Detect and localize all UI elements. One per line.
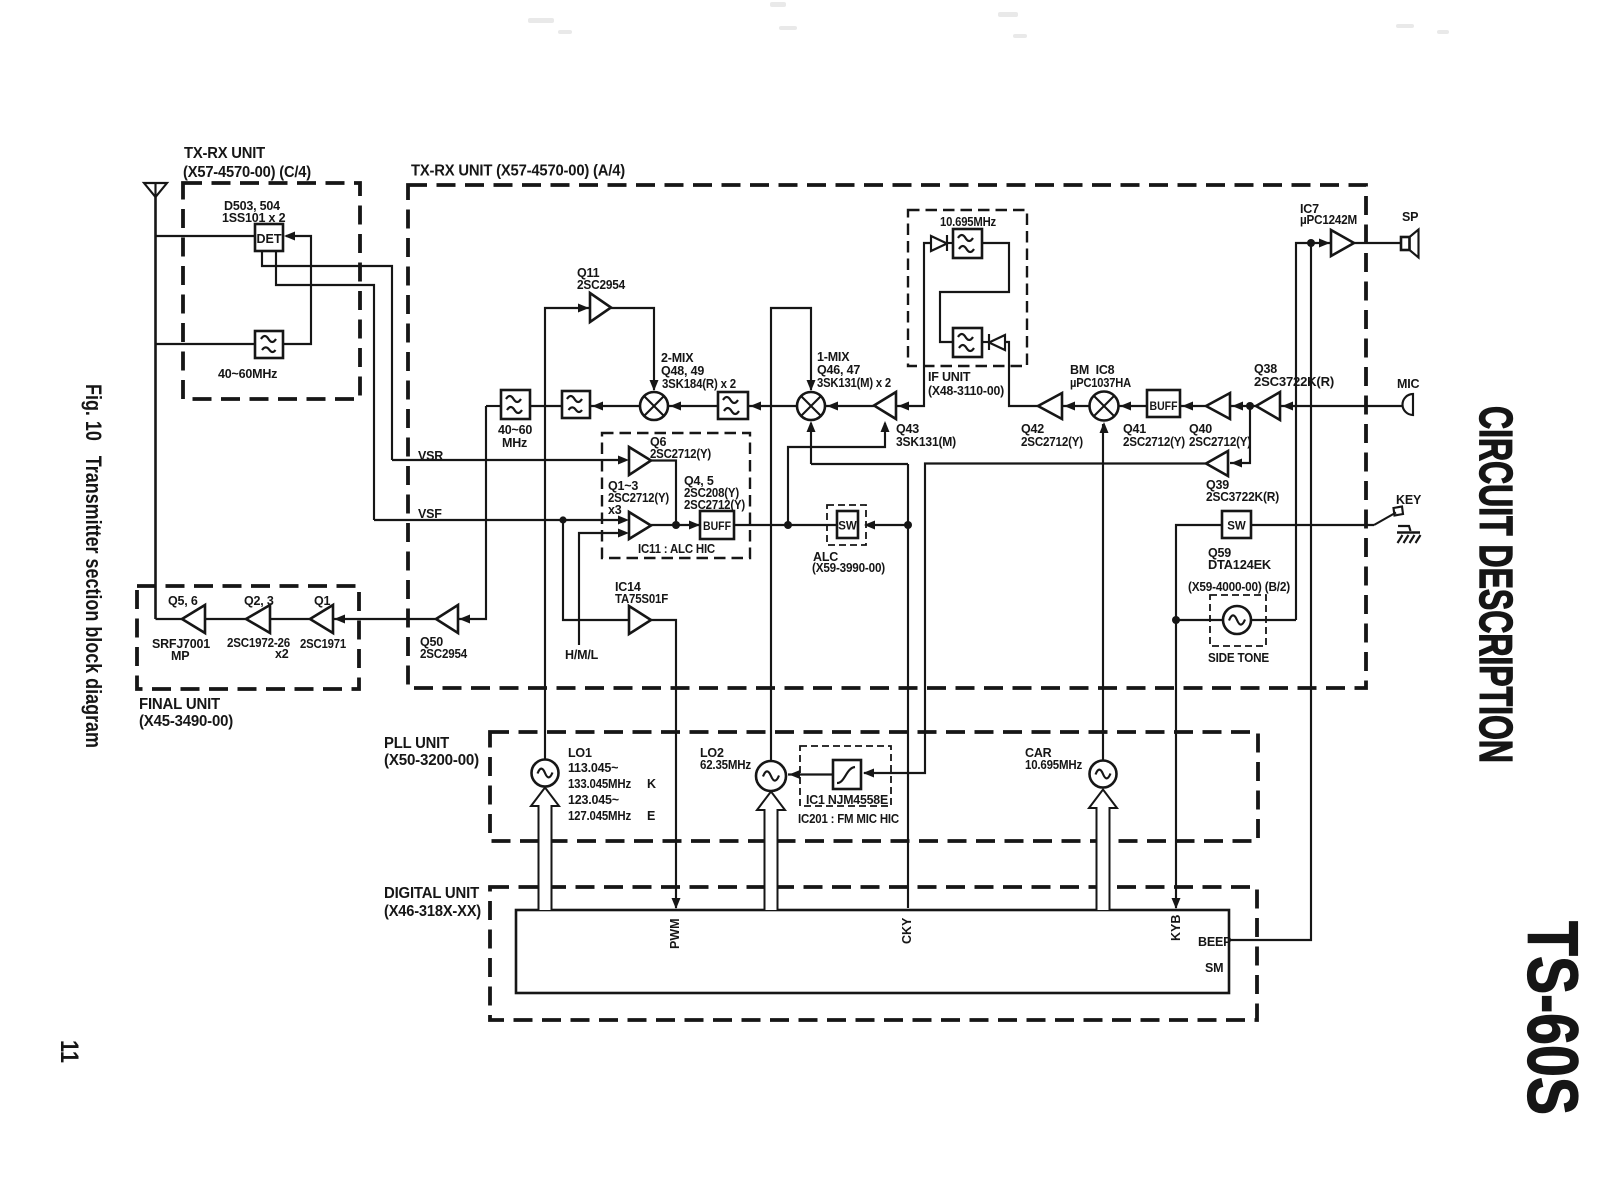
mixer BM IC8: [1090, 392, 1119, 421]
processor DIGITAL UNIT main box: [516, 910, 1229, 993]
node Q38 output junction: [1246, 402, 1254, 410]
svg-text:CIRCUIT DESCRIPTION: CIRCUIT DESCRIPTION: [1470, 406, 1522, 763]
svg-text:2SC2954: 2SC2954: [420, 647, 467, 661]
svg-text:SIDE TONE: SIDE TONE: [1208, 651, 1269, 665]
unit box FINAL UNIT (X45-3490-00) dashed: [137, 586, 359, 689]
svg-text:E: E: [647, 809, 655, 823]
svg-text:PWM: PWM: [668, 918, 682, 949]
label Q11 2SC2954: [577, 266, 625, 292]
unit box IF UNIT (X48-3110-00) dashed: [908, 210, 1027, 366]
bus arrow PLL to LO2: [757, 792, 785, 911]
wire diode bottom to Q42 output: [1005, 342, 1038, 406]
svg-text:1SS101 x 2: 1SS101 x 2: [222, 211, 286, 225]
svg-text:Q2, 3: Q2, 3: [244, 594, 274, 608]
svg-text:LO1: LO1: [568, 746, 592, 760]
filter IC1 NJM4558E box: [833, 760, 861, 789]
svg-text:123.045~: 123.045~: [568, 793, 619, 807]
unit box TX-RX UNIT (X57-4570-00) (C/4) dashed: [183, 183, 360, 399]
svg-text:11: 11: [55, 1040, 83, 1063]
oscillator LO1: [532, 760, 559, 787]
arrowhead into 2-MIX top: [650, 380, 659, 391]
label Q39 2SC3722K(R): [1206, 478, 1279, 504]
wire Q11 output to 2-MIX top: [611, 308, 654, 390]
label Q43 3SK131(M): [896, 422, 956, 449]
arrowhead into Q1-3 upper: [618, 516, 629, 525]
svg-text:x2: x2: [275, 647, 289, 661]
diode D top (IF unit): [931, 235, 947, 251]
label BM IC8 uPC1037HA: [1070, 363, 1131, 390]
wire side tone right to riser: [1251, 619, 1296, 621]
wire BUFF output to SW ALC: [734, 524, 837, 526]
wire BUFF2 to BM: [1118, 405, 1147, 407]
wire DET stub A to VSR riser: [262, 251, 392, 460]
arrowhead into LO2: [789, 770, 800, 779]
svg-text:TX-RX UNIT (X57-4570-00) (A/4): TX-RX UNIT (X57-4570-00) (A/4): [411, 163, 625, 180]
wire Q43 output to 1-MIX: [825, 405, 874, 407]
label Q42 2SC2712(Y): [1021, 422, 1083, 449]
wire 2-MIX to filter B: [590, 405, 640, 407]
svg-text:BUFF: BUFF: [703, 521, 731, 533]
svg-text:Q41: Q41: [1123, 422, 1146, 436]
mixer 2-MIX Q48,49: [640, 392, 668, 420]
wire filter C to 2-MIX: [668, 405, 718, 407]
label D503, 504 1SS101 x 2: [222, 199, 286, 225]
svg-text:Q42: Q42: [1021, 422, 1044, 436]
arrowhead into Q39: [1231, 459, 1242, 468]
wire side tone riser to IC7 input: [1296, 243, 1331, 620]
arrowhead into Q40: [1232, 402, 1243, 411]
svg-text:Q5, 6: Q5, 6: [168, 594, 198, 608]
wire antenna to DET: [156, 235, 256, 237]
wire Q5,6 output to antenna line: [156, 618, 183, 620]
svg-text:DET: DET: [257, 232, 282, 246]
svg-text:Q38: Q38: [1254, 362, 1277, 376]
arrowhead into DET: [284, 232, 295, 241]
amplifier Q1-3: [629, 512, 651, 539]
amplifier Q43: [874, 392, 896, 419]
label Q40 2SC2712(Y): [1189, 422, 1251, 449]
wire IC7 output to speaker: [1354, 242, 1402, 244]
wire CAR riser to BM bottom: [1102, 424, 1104, 760]
arrowhead KYB into digital unit: [1172, 898, 1181, 909]
arrowhead into Q1-3 lower: [618, 529, 629, 538]
svg-text:DIGITAL UNIT: DIGITAL UNIT: [384, 885, 480, 902]
wire MIC to Q38: [1280, 405, 1402, 407]
arrowhead into Q6: [618, 456, 629, 465]
arrowhead into 2-MIX right: [670, 402, 681, 411]
unit box SIDE TONE (X59-4000-00) dashed: [1210, 595, 1266, 646]
unit box TX-RX UNIT (X57-4570-00) (A/4) dashed: [408, 185, 1366, 688]
wire filter to antenna line: [156, 343, 256, 345]
svg-text:IF UNIT: IF UNIT: [928, 370, 971, 384]
svg-text:MIC: MIC: [1397, 377, 1419, 391]
amplifier Q38: [1256, 392, 1280, 420]
wire Q39 output to IC1: [864, 464, 1206, 774]
svg-text:(X45-3490-00): (X45-3490-00): [139, 713, 233, 730]
wire filter A to filter B: [530, 405, 562, 407]
filter 40-60MHz (C/4 unit): [255, 331, 283, 358]
wire H/M/L stub: [579, 533, 620, 645]
wire ALC control up to 1-MIX and Q43: [788, 423, 885, 525]
node CKY to SW ALC junction: [904, 521, 912, 529]
wire VSR line: [392, 459, 620, 461]
wire diode to filter top: [947, 242, 953, 244]
svg-text:H/M/L: H/M/L: [565, 648, 599, 662]
label LO1 113.045-133.045MHz K 123.045-127.045MHz E: [568, 746, 656, 823]
svg-text:BEEP: BEEP: [1198, 935, 1231, 949]
label Q38 2SC3722K(R): [1254, 362, 1334, 389]
svg-text:3SK184(R) x 2: 3SK184(R) x 2: [662, 377, 736, 391]
svg-text:(X57-4570-00) (C/4): (X57-4570-00) (C/4): [183, 164, 311, 181]
filter C between mixers: [718, 392, 748, 419]
svg-text:(X50-3200-00): (X50-3200-00): [384, 752, 479, 769]
svg-text:TA75S01F: TA75S01F: [615, 592, 669, 606]
wire junction to SW ALC: [866, 524, 908, 526]
label 40~60 MHz: [498, 423, 532, 450]
wire filter A left to Q50 riser: [486, 405, 501, 407]
svg-text:10.695MHz: 10.695MHz: [1025, 758, 1082, 772]
amplifier Q39: [1206, 451, 1228, 476]
wire SW KEY to KYB line: [1176, 525, 1222, 908]
antenna: [144, 183, 167, 197]
arrowhead into Q50: [459, 615, 470, 624]
label SRFJ7001 MP: [152, 637, 210, 663]
ground chassis at KEY: [1397, 526, 1421, 543]
buffer BUFF Q41: [1147, 390, 1180, 417]
arrowhead into filter B: [592, 402, 603, 411]
amplifier Q2,3: [246, 605, 270, 633]
wire BM to Q42: [1062, 405, 1089, 407]
node VSF junction: [559, 516, 566, 523]
svg-text:2SC3722K(R): 2SC3722K(R): [1254, 375, 1334, 389]
label Q41 2SC2712(Y): [1123, 422, 1185, 449]
svg-text:µPC1037HA: µPC1037HA: [1070, 376, 1131, 390]
arrowhead into BUFF2: [1182, 402, 1193, 411]
wire IC1 to LO2: [788, 773, 833, 775]
svg-text:40~60MHz: 40~60MHz: [218, 367, 277, 381]
svg-text:10.695MHz: 10.695MHz: [940, 215, 996, 229]
wire SW KEY to key lever: [1251, 524, 1374, 526]
oscillator LO2: [756, 761, 786, 791]
mixer 1-MIX Q46,47: [797, 392, 825, 420]
svg-text:SM: SM: [1205, 961, 1223, 975]
label Q1-3 2SC2712(Y) x3: [608, 479, 669, 517]
arrowhead into Q38: [1282, 402, 1293, 411]
svg-text:2SC2712(Y): 2SC2712(Y): [650, 447, 711, 461]
oscillator SIDE TONE: [1223, 606, 1251, 634]
amplifier Q50: [436, 605, 458, 633]
wire filter A down to Q50 input: [458, 406, 486, 619]
svg-text:(X59-4000-00) (B/2): (X59-4000-00) (B/2): [1188, 580, 1290, 594]
svg-text:MHz: MHz: [502, 436, 527, 450]
amplifier Q42: [1038, 393, 1062, 419]
filter B squiggle+tilde: [562, 391, 590, 418]
svg-text:2SC2712(Y): 2SC2712(Y): [1021, 435, 1083, 449]
svg-text:KYB: KYB: [1169, 915, 1183, 941]
svg-text:3SK131(M): 3SK131(M): [896, 435, 956, 449]
arrowhead into SW ALC: [864, 521, 875, 530]
wire DET stub B to VSF riser: [276, 251, 374, 520]
unit box IC11 ALC HIC dashed: [602, 433, 750, 558]
svg-text:2SC3722K(R): 2SC3722K(R): [1206, 490, 1279, 504]
svg-text:Fig. 10 Transmitter section: Fig. 10 Transmitter section block diagra…: [81, 384, 106, 748]
svg-text:2SC2712(Y): 2SC2712(Y): [1123, 435, 1185, 449]
wire Q1 to Q2,3: [270, 618, 310, 620]
label CAR 10.695MHz: [1025, 746, 1082, 772]
arrowhead into IC7: [1319, 239, 1330, 248]
arrowhead into Q43 input: [898, 402, 909, 411]
svg-text:IC11 : ALC HIC: IC11 : ALC HIC: [638, 542, 715, 556]
svg-text:3SK131(M) x 2: 3SK131(M) x 2: [817, 376, 891, 390]
svg-text:PLL UNIT: PLL UNIT: [384, 735, 450, 752]
label 2SC1972-26 x2: [227, 636, 290, 661]
svg-text:Q48, 49: Q48, 49: [661, 364, 704, 378]
arrowhead into Q1: [334, 615, 345, 624]
label IC7 uPC1242M: [1300, 202, 1357, 227]
wire VSF line: [374, 519, 620, 521]
svg-text:TS-60S: TS-60S: [1512, 921, 1592, 1115]
arrowhead into BM right: [1120, 402, 1131, 411]
wire side tone left to KYB line: [1176, 619, 1223, 621]
wire antenna feed vertical: [154, 197, 157, 619]
node ALC tap junction: [784, 521, 792, 529]
label ALC (X59-3990-00): [812, 550, 885, 575]
arrowhead PWM into digital unit: [672, 898, 681, 909]
svg-text:2SC1971: 2SC1971: [300, 637, 346, 651]
wire Q40 to BUFF2: [1180, 405, 1206, 407]
amplifier IC7: [1331, 230, 1354, 256]
amplifier Q40: [1206, 393, 1230, 419]
arrowhead into 1-MIX top: [807, 380, 816, 391]
box SW ALC outer dashed: [827, 505, 866, 545]
svg-text:FINAL UNIT: FINAL UNIT: [139, 696, 221, 713]
svg-text:VSF: VSF: [418, 507, 442, 521]
arrowhead into Q42: [1064, 402, 1075, 411]
svg-text:µPC1242M: µPC1242M: [1300, 213, 1357, 227]
detector DET D503,504: [255, 224, 283, 251]
svg-text:Q46, 47: Q46, 47: [817, 363, 860, 377]
svg-text:2-MIX: 2-MIX: [661, 351, 694, 365]
wire IC14 output to PWM: [651, 620, 676, 908]
arrowhead into filter C: [750, 402, 761, 411]
amplifier Q11: [590, 293, 611, 322]
svg-text:IC201 : FM MIC HIC: IC201 : FM MIC HIC: [798, 812, 899, 826]
svg-text:113.045~: 113.045~: [568, 761, 618, 775]
wire IF unit top line to Q43 input: [896, 243, 931, 406]
wire LO2 riser to 1-MIX top: [771, 308, 811, 760]
svg-text:IC1 NJM4558E: IC1 NJM4558E: [806, 793, 888, 807]
svg-text:(X59-3990-00): (X59-3990-00): [812, 561, 885, 575]
unit box PLL UNIT (X50-3200-00) dashed: [490, 732, 1258, 841]
wire DET right loop to filter: [284, 236, 311, 344]
bus arrow PLL to CAR: [1089, 790, 1117, 911]
wire Q6 output to junction: [651, 461, 676, 526]
arrowhead into 1-MIX bottom: [807, 421, 816, 432]
svg-text:BUFF: BUFF: [1150, 401, 1178, 413]
label Q4, 5 2SC208(Y) 2SC2712(Y): [684, 474, 745, 512]
wire VSF to IC14 input: [563, 520, 629, 620]
svg-text:127.045MHz: 127.045MHz: [568, 809, 631, 823]
svg-text:BM IC8: BM IC8: [1070, 363, 1115, 377]
oscillator CAR: [1090, 761, 1117, 788]
svg-text:2SC2954: 2SC2954: [577, 278, 625, 292]
wire Q39 output riser into 1-MIX bottom: [810, 423, 812, 464]
svg-text:(X48-3110-00): (X48-3110-00): [928, 384, 1004, 398]
svg-text:Q40: Q40: [1189, 422, 1212, 436]
svg-text:Q1: Q1: [314, 594, 331, 608]
wire CKY vertical: [907, 464, 909, 908]
node side tone junction on KYB line: [1172, 616, 1180, 624]
filter 40-60 MHz (A/4, double squiggle): [501, 390, 530, 419]
svg-text:133.045MHz: 133.045MHz: [568, 777, 631, 791]
amplifier Q1: [310, 605, 333, 633]
svg-text:DTA124EK: DTA124EK: [1208, 558, 1271, 572]
amplifier IC14: [629, 606, 651, 634]
bus arrow PLL to LO1: [531, 788, 559, 911]
svg-text:SW: SW: [1227, 521, 1246, 533]
arrowhead into Q11: [578, 304, 589, 313]
diode D bottom (IF unit): [989, 334, 1005, 350]
svg-text:2SC2712(Y): 2SC2712(Y): [1189, 435, 1251, 449]
amplifier Q5,6: [182, 605, 205, 633]
svg-text:(X46-318X-XX): (X46-318X-XX): [384, 903, 481, 920]
wire BEEP riser: [1229, 243, 1311, 940]
wire filter to diode bottom: [982, 341, 989, 343]
svg-text:KEY: KEY: [1396, 493, 1422, 507]
arrowhead into BUFF: [689, 521, 700, 530]
label 1-MIX Q46, 47 3SK131(M) x 2: [817, 350, 891, 390]
filter IF bottom: [953, 328, 982, 357]
svg-text:K: K: [647, 777, 656, 791]
node Q6/Q1-3 output junction: [672, 521, 680, 529]
wire LO1 to Q11 input: [545, 308, 589, 760]
arrowhead into 1-MIX right: [827, 402, 838, 411]
svg-text:TX-RX UNIT: TX-RX UNIT: [184, 145, 266, 162]
label Q6 2SC2712(Y): [650, 435, 711, 461]
microphone MIC: [1403, 394, 1414, 415]
wire Q1-3 output to BUFF: [651, 524, 700, 526]
arrowhead into BM bottom: [1100, 422, 1109, 433]
svg-text:x3: x3: [608, 503, 622, 517]
speaker SP: [1401, 230, 1419, 258]
unit box DIGITAL UNIT (X46-318X-XX) dashed: [490, 887, 1257, 1020]
svg-text:Q43: Q43: [896, 422, 919, 436]
svg-text:SW: SW: [838, 521, 857, 533]
svg-text:1-MIX: 1-MIX: [817, 350, 850, 364]
arrowhead into IC1: [863, 769, 874, 778]
arrowhead ALC into Q43 bottom: [881, 421, 890, 432]
unit box IC1 FM MIC HIC dashed: [800, 746, 891, 806]
wire Q38 to Q40: [1230, 405, 1256, 407]
wire Q38 junction down to Q39 input: [1230, 406, 1250, 463]
amplifier Q6: [629, 447, 651, 475]
label IC14 TA75S01F: [615, 580, 669, 606]
svg-text:SP: SP: [1402, 210, 1418, 224]
switch SW (KEY) Q59: [1222, 511, 1251, 538]
wire 1-MIX to filter C: [748, 405, 797, 407]
wire Q50 to Q1: [333, 618, 436, 620]
svg-text:VSR: VSR: [418, 449, 443, 463]
key switch KEY: [1374, 507, 1403, 526]
label 2-MIX Q48, 49 3SK184(R) x 2: [661, 351, 736, 391]
label LO2 62.35MHz: [700, 746, 751, 772]
wire IF S-bend: [940, 243, 1009, 342]
buffer BUFF Q4,5: [700, 511, 734, 539]
svg-text:MP: MP: [171, 649, 189, 663]
svg-text:62.35MHz: 62.35MHz: [700, 758, 751, 772]
switch SW (ALC): [837, 511, 858, 538]
wire CKY top to 1-MIX riser: [811, 463, 908, 465]
svg-text:CKY: CKY: [900, 917, 914, 944]
node BEEP junction at IC7 input: [1307, 239, 1315, 247]
svg-text:40~60: 40~60: [498, 423, 532, 437]
label Q50 2SC2954: [420, 635, 467, 661]
wire Q2,3 to Q5,6: [205, 618, 246, 620]
filter IF top 10.695MHz: [953, 229, 982, 258]
